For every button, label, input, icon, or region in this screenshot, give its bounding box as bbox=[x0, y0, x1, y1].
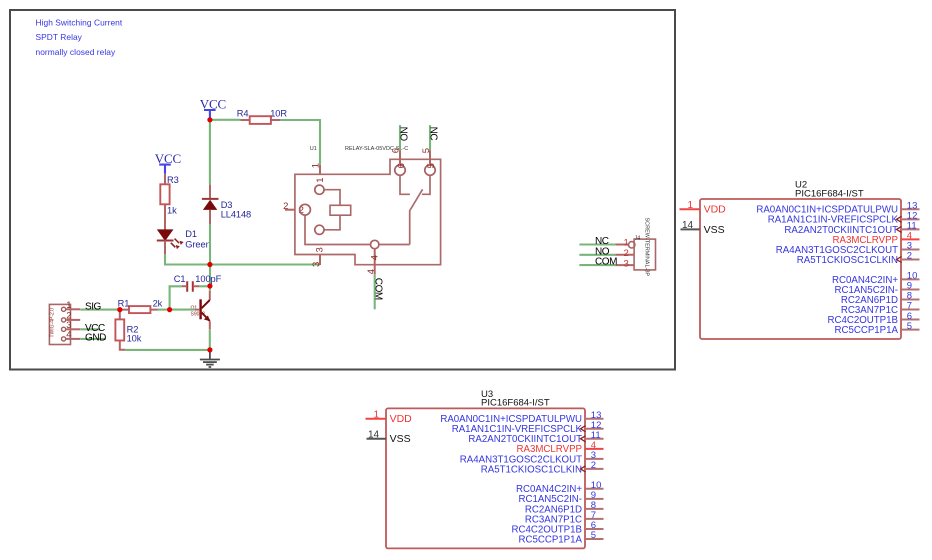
wire NO bbox=[399, 125, 401, 150]
resistor R1 bbox=[118, 298, 168, 313]
svg-text:Green: Green bbox=[185, 239, 210, 249]
svg-text:4: 4 bbox=[66, 330, 71, 341]
pin 6 RC4C2OUTP1B bbox=[585, 528, 604, 530]
svg-text:normally closed relay: normally closed relay bbox=[36, 47, 116, 57]
svg-text:LL4148: LL4148 bbox=[221, 210, 251, 220]
svg-text:SPDT Relay: SPDT Relay bbox=[36, 32, 83, 42]
pin 8 RC2AN6P1D bbox=[901, 298, 920, 300]
pin 1 VDD bbox=[680, 208, 701, 210]
pin 3 bbox=[62, 327, 66, 331]
power symbol VCC (left) bbox=[155, 151, 181, 174]
svg-text:D1: D1 bbox=[185, 229, 197, 239]
svg-text:TWIG-4P-2.0: TWIG-4P-2.0 bbox=[50, 308, 56, 338]
ground bbox=[200, 350, 220, 367]
relay outline bbox=[295, 159, 441, 264]
pin 9 RC1AN5C2IN- bbox=[901, 288, 920, 290]
pin 13 RA0AN0C1IN+ICSPDATULPWU bbox=[585, 418, 604, 420]
wire D1 to GND-side node bbox=[165, 254, 208, 264]
pin 4 bbox=[62, 337, 66, 341]
svg-text:COM: COM bbox=[595, 257, 617, 268]
svg-text:6: 6 bbox=[396, 163, 407, 168]
svg-text:VSS: VSS bbox=[704, 224, 725, 236]
wire VCC stub bbox=[80, 328, 100, 330]
svg-text:5: 5 bbox=[426, 163, 437, 168]
pin 12 RA1AN1C1IN-VREFICSPCLK bbox=[901, 218, 920, 220]
IC body U3 bbox=[386, 408, 585, 548]
connector J4 SCREW-TERMINAL-3P bbox=[615, 218, 655, 277]
IC U3 PIC16F684-I/ST bbox=[366, 389, 604, 548]
svg-text:R1: R1 bbox=[118, 298, 130, 308]
svg-text:1: 1 bbox=[688, 200, 694, 211]
svg-text:RC5CCP1P1A: RC5CCP1P1A bbox=[518, 534, 582, 545]
NO contact circle (pin 6) bbox=[395, 165, 405, 175]
wire D3 to C1 node bbox=[209, 224, 211, 286]
svg-text:NC: NC bbox=[427, 127, 438, 141]
wire COM (to J4) bbox=[579, 264, 615, 266]
svg-text:14: 14 bbox=[682, 220, 694, 231]
wire GND stub bbox=[80, 338, 106, 340]
wire NC (to J4) bbox=[579, 243, 615, 245]
svg-text:RC5CCP1P1A: RC5CCP1P1A bbox=[834, 325, 898, 336]
junction dot (R1 / C1 / base node) bbox=[167, 307, 172, 312]
svg-text:10k: 10k bbox=[127, 334, 142, 344]
pin 2 bbox=[62, 318, 66, 322]
switch contact stubs bbox=[400, 175, 430, 194]
relay pin 2 bbox=[285, 209, 295, 211]
svg-text:R4: R4 bbox=[237, 108, 249, 118]
junction dot (D3 / D1 / relay pin 3 node) bbox=[207, 262, 212, 267]
pin 4 RA3MCLRVPP bbox=[901, 238, 920, 240]
relay U1 RELAY-SLA-05VDC-SL-C bbox=[283, 146, 441, 274]
switch blade bbox=[379, 189, 423, 244]
IC body U2 bbox=[700, 199, 901, 339]
svg-text:4: 4 bbox=[370, 255, 381, 260]
wire NO (to J4) bbox=[579, 254, 615, 256]
pin 1 bbox=[62, 307, 66, 311]
diode D3 bbox=[202, 185, 251, 224]
pin 7 RC3AN7P1C bbox=[585, 518, 604, 520]
wire SIG bbox=[80, 309, 118, 311]
junction dot (VCC / R4 / D3 node) bbox=[207, 117, 212, 122]
pin 14 VSS bbox=[367, 438, 387, 440]
coil contact circle (pin3 side) bbox=[315, 225, 324, 234]
svg-text:1k: 1k bbox=[167, 206, 177, 216]
pin 10 RC0AN4C2IN+ bbox=[901, 278, 920, 280]
svg-text:RA5T1CKIOSC1CLKIN: RA5T1CKIOSC1CLKIN bbox=[797, 255, 898, 266]
pin 3 RA4AN3T1GOSC2CLKOUT bbox=[585, 458, 604, 460]
schematic frame bbox=[10, 10, 675, 370]
pin 2 RA5T1CKIOSC1CLKIN bbox=[901, 259, 920, 261]
svg-text:VSS: VSS bbox=[390, 433, 411, 445]
svg-text:5: 5 bbox=[591, 530, 596, 541]
pin 5 RC5CCP1P1A bbox=[901, 329, 920, 331]
relay pin 1 bbox=[319, 165, 321, 174]
svg-text:RA5T1CKIOSC1CLKIN: RA5T1CKIOSC1CLKIN bbox=[481, 464, 582, 475]
J4 pin 2 bbox=[615, 254, 634, 256]
svg-text:2k: 2k bbox=[153, 298, 163, 308]
connector P1 TWIG-4P-2.0 bbox=[49, 300, 80, 345]
relay pin 4 (COM) bbox=[374, 249, 376, 275]
svg-text:10R: 10R bbox=[270, 108, 287, 118]
pin 11 RA2AN2T0CKIINTC1OUT bbox=[901, 228, 920, 230]
svg-text:14: 14 bbox=[368, 430, 380, 441]
svg-text:1: 1 bbox=[624, 238, 629, 249]
wire R2 to ground node bbox=[125, 349, 210, 351]
svg-text:3: 3 bbox=[311, 262, 322, 267]
pin 6 RC4C2OUTP1B bbox=[901, 319, 920, 321]
LED D1 bbox=[157, 229, 211, 255]
svg-text:C1: C1 bbox=[174, 274, 186, 284]
pin 8 RC2AN6P1D bbox=[585, 508, 604, 510]
wire node to relay pin 3 bbox=[210, 263, 320, 265]
wire NC bbox=[429, 125, 431, 150]
svg-text:1: 1 bbox=[311, 163, 322, 168]
resistor R4 bbox=[237, 108, 288, 123]
svg-text:J4: J4 bbox=[635, 236, 641, 242]
svg-text:U1: U1 bbox=[310, 146, 317, 152]
junction dot (C1 / collector node) bbox=[207, 283, 212, 288]
svg-text:S9013: S9013 bbox=[191, 311, 206, 317]
pin 5 RC5CCP1P1A bbox=[585, 538, 604, 540]
svg-text:SCREW-TERMINAL-3P: SCREW-TERMINAL-3P bbox=[643, 218, 649, 277]
NC contact circle (pin 5) bbox=[425, 165, 435, 175]
pin 11 RA2AN2T0CKIINTC1OUT bbox=[585, 438, 604, 440]
svg-text:2: 2 bbox=[283, 201, 288, 212]
pin 9 RC1AN5C2IN- bbox=[585, 498, 604, 500]
svg-text:1: 1 bbox=[315, 178, 326, 183]
pin 1 VDD bbox=[366, 418, 387, 420]
junction dot (R1 / R2 / SIG node) bbox=[117, 307, 122, 312]
wire VCC node to R4 bbox=[210, 119, 241, 121]
svg-text:4: 4 bbox=[366, 269, 377, 274]
svg-text:1: 1 bbox=[374, 410, 380, 421]
pin 2 RA5T1CKIOSC1CLKIN bbox=[585, 468, 604, 470]
pin 10 RC0AN4C2IN+ bbox=[585, 488, 604, 490]
svg-text:5: 5 bbox=[907, 321, 912, 332]
svg-text:High Switching Current: High Switching Current bbox=[36, 17, 123, 27]
relay pin 3 bbox=[319, 255, 321, 266]
coil bbox=[324, 190, 340, 230]
svg-text:1: 1 bbox=[66, 300, 71, 311]
pin2 to COM pole path bbox=[305, 215, 371, 244]
svg-text:3: 3 bbox=[624, 258, 629, 269]
pin 14 VSS bbox=[681, 228, 701, 230]
resistor R2 bbox=[115, 311, 141, 350]
svg-text:2: 2 bbox=[591, 460, 596, 471]
pin 13 RA0AN0C1IN+ICSPDATULPWU bbox=[901, 208, 920, 210]
pin 7 RC3AN7P1C bbox=[901, 309, 920, 311]
power symbol VCC (top) bbox=[200, 96, 226, 120]
junction dot (ground node) bbox=[207, 347, 212, 352]
svg-text:VDD: VDD bbox=[704, 204, 727, 216]
IC U2 PIC16F684-I/ST bbox=[680, 180, 920, 339]
svg-text:3: 3 bbox=[315, 247, 326, 252]
svg-text:PIC16F684-I/ST: PIC16F684-I/ST bbox=[795, 188, 864, 199]
capacitor C1 bbox=[170, 274, 222, 307]
svg-text:GND: GND bbox=[85, 333, 106, 344]
wire R4 to relay pin 1 bbox=[280, 120, 320, 165]
coil contact circle (pin1) bbox=[315, 185, 324, 194]
svg-text:SIG: SIG bbox=[85, 301, 102, 312]
svg-text:100pF: 100pF bbox=[195, 274, 221, 284]
transistor Q1 bbox=[191, 286, 211, 348]
svg-text:PIC16F684-I/ST: PIC16F684-I/ST bbox=[481, 398, 550, 409]
svg-text:2: 2 bbox=[907, 251, 912, 262]
J4 pin 3 bbox=[615, 264, 634, 266]
pin 12 RA1AN1C1IN-VREFICSPCLK bbox=[585, 428, 604, 430]
wire base bbox=[171, 309, 195, 311]
pin 3 RA4AN3T1GOSC2CLKOUT bbox=[901, 248, 920, 250]
COM pole contact circle bbox=[371, 240, 379, 248]
svg-text:R3: R3 bbox=[167, 175, 179, 185]
J4 pin 1 bbox=[615, 244, 628, 246]
pin 4 RA3MCLRVPP bbox=[585, 448, 604, 450]
svg-text:COM: COM bbox=[373, 278, 384, 300]
svg-text:VDD: VDD bbox=[390, 413, 413, 425]
wire COM bbox=[374, 274, 376, 309]
wire VCC node down to D3 bbox=[209, 120, 211, 185]
resistor R3 bbox=[160, 174, 178, 230]
svg-text:NC: NC bbox=[595, 236, 609, 247]
svg-text:NO: NO bbox=[397, 127, 408, 142]
